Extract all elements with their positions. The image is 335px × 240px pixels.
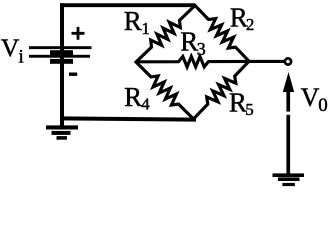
label R2 [230, 2, 255, 34]
svg-text:R: R [229, 87, 247, 117]
wire ground lead (below arrow) [286, 115, 290, 174]
label R4 [124, 82, 150, 113]
resistors R1 R2 R4 R5 (bridge diamond, zigzag arms) [136, 6, 249, 120]
ground (left, under battery) [46, 125, 78, 139]
svg-text:5: 5 [245, 100, 254, 119]
svg-text:4: 4 [141, 94, 150, 113]
svg-text:2: 2 [246, 15, 255, 34]
svg-text:R: R [124, 6, 142, 36]
wire left vertical (through battery Vi down to ground junction) [60, 3, 64, 126]
svg-text:0: 0 [318, 95, 328, 116]
arrow V0 (pointing up at output) [283, 72, 294, 112]
svg-text:1: 1 [141, 19, 150, 38]
wire bottom (ground junction to bridge bottom vertex) [60, 118, 196, 119]
label R3 [180, 27, 205, 59]
label R5 [229, 87, 254, 118]
label R1 [124, 6, 150, 38]
battery Vi plates [29, 46, 92, 64]
svg-text:R: R [180, 27, 198, 57]
battery minus sign [69, 73, 77, 76]
svg-text:3: 3 [197, 39, 206, 59]
svg-text:i: i [19, 47, 24, 68]
ground (right, under output) [273, 173, 305, 186]
resistor R3 (bridge middle arm) with wire to output node [136, 56, 284, 67]
svg-text:V: V [301, 83, 320, 112]
output terminal node (open circle) [285, 58, 291, 64]
label Vi [1, 33, 24, 67]
svg-text:V: V [1, 33, 20, 62]
battery plus sign [72, 27, 85, 40]
wire top (battery + to bridge top vertex) [60, 3, 195, 7]
svg-text:R: R [124, 82, 142, 112]
label V0 [301, 83, 328, 116]
